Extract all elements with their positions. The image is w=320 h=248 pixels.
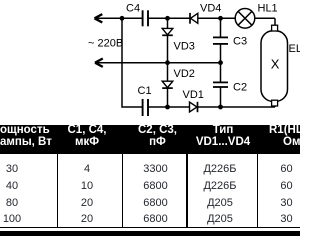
svg-text:C3: C3: [233, 36, 247, 48]
svg-text:~ 220В: ~ 220В: [88, 38, 123, 50]
header col4: Тип VD1...VD4: [187, 124, 259, 149]
table header band: [0, 125, 300, 155]
capacitor C1: [143, 99, 190, 116]
node E (C3/C2 junction): [218, 60, 223, 65]
mains terminal arrow 1 (~220V): [95, 14, 143, 22]
svg-text:VD2: VD2: [174, 68, 195, 80]
node B (VD3 top junction): [165, 16, 170, 21]
svg-text:VD1: VD1: [183, 89, 204, 101]
node C (VD4/C3/lamp junction): [218, 16, 223, 21]
capacitor C2: [213, 63, 228, 107]
node D (VD3/VD2 junction): [165, 60, 170, 65]
header col3: С2, С3, пФ: [123, 124, 192, 149]
header col5: R1(HL1), Ом (right-cropped): [269, 124, 320, 149]
table bottom thin rule: [0, 227, 300, 228]
circuit schematic: [0, 0, 300, 124]
diode VD2: [162, 63, 173, 107]
diode VD4: [190, 13, 235, 24]
table row 2: [0, 180, 24, 192]
header col1: Мощность лампы, Вт (left-cropped): [0, 124, 54, 149]
discharge tube EL: [261, 25, 288, 107]
lamp HL1: [235, 8, 275, 28]
table column divider 2: [122, 154, 123, 228]
svg-text:HL1: HL1: [258, 3, 278, 15]
svg-text:C4: C4: [126, 3, 140, 15]
table column divider 3: [186, 154, 187, 228]
capacitor C3: [213, 18, 228, 62]
svg-text:EL: EL: [289, 43, 301, 55]
table bottom thick rule: [0, 231, 300, 236]
svg-text:VD4: VD4: [200, 3, 221, 15]
table row 1: [0, 163, 24, 175]
table row 4: [0, 213, 24, 225]
svg-text:C1: C1: [138, 85, 152, 97]
mains terminal arrow 2 (~220V) + middle rail wire: [95, 59, 221, 67]
table column divider 1: [57, 154, 58, 228]
diode VD3: [162, 18, 173, 62]
svg-text:VD3: VD3: [174, 41, 195, 53]
wire: left vertical branch to bottom rail: [122, 18, 142, 107]
table column divider 4: [257, 154, 258, 228]
svg-text:C2: C2: [233, 82, 247, 94]
svg-text:X: X: [271, 56, 280, 71]
diode VD1: [190, 102, 276, 112]
node G (VD1/C2 junction): [218, 105, 223, 110]
header col2: С1, С4, мкФ: [57, 124, 117, 149]
table row 3: [0, 197, 24, 209]
node A (top-left junction): [120, 16, 125, 21]
capacitor C4: [143, 10, 190, 26]
node F (VD2/C1 junction): [165, 105, 170, 110]
